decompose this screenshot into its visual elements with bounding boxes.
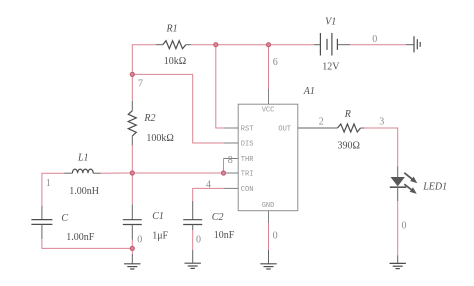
- wire TRI net horizontal: [132, 172, 223, 174]
- svg-text:1: 1: [46, 178, 51, 189]
- capacitor C1: [123, 205, 142, 240]
- node junction top RST: [214, 43, 218, 47]
- resistor R1: [156, 41, 191, 49]
- wire THR tie: [223, 159, 225, 174]
- svg-text:1.00nH: 1.00nH: [69, 186, 99, 197]
- wire DIS net: [132, 74, 223, 143]
- node 8 junction THR: [222, 171, 226, 175]
- svg-text:VCC: VCC: [262, 106, 275, 114]
- ground below C1: [124, 254, 140, 269]
- svg-text:0: 0: [137, 235, 142, 246]
- svg-text:A1: A1: [303, 86, 315, 97]
- svg-text:2: 2: [319, 117, 324, 128]
- svg-text:0: 0: [273, 230, 278, 241]
- svg-text:R1: R1: [166, 24, 178, 35]
- wire battery to ground: [350, 44, 406, 46]
- svg-text:1.00nF: 1.00nF: [66, 232, 95, 243]
- resistor R: [338, 124, 365, 132]
- battery V1: [314, 33, 350, 56]
- svg-text:OUT: OUT: [278, 126, 291, 134]
- wire C1 top: [131, 173, 133, 205]
- svg-text:7: 7: [138, 79, 143, 90]
- wire RST net: [216, 45, 225, 128]
- wire OUT right to LED: [364, 128, 398, 166]
- wire L1 left: [42, 173, 65, 206]
- svg-text:LED1: LED1: [422, 182, 447, 193]
- svg-text:C: C: [61, 213, 68, 224]
- svg-text:0: 0: [196, 235, 201, 246]
- wire top rail left: [132, 45, 156, 101]
- resistor R2: [128, 101, 136, 145]
- ground top right (rotated): [406, 36, 420, 52]
- svg-text:390Ω: 390Ω: [338, 141, 360, 152]
- ground below C2: [185, 263, 201, 268]
- ground below LED: [390, 255, 406, 268]
- node junction top VCC: [267, 43, 271, 47]
- svg-text:100kΩ: 100kΩ: [146, 133, 173, 144]
- timer IC A1 (555): [224, 89, 298, 223]
- capacitor C2: [183, 201, 202, 263]
- wire top rail middle: [191, 44, 314, 46]
- wire C1 bottom: [131, 240, 133, 255]
- inductor L1: [64, 169, 100, 173]
- node 7 junction: [130, 72, 134, 76]
- wire R2 bottom: [131, 145, 133, 173]
- svg-text:C1: C1: [152, 211, 164, 222]
- svg-text:10kΩ: 10kΩ: [164, 56, 186, 67]
- wire C bottom to C1 bottom: [42, 239, 132, 248]
- wire OUT left: [298, 127, 338, 129]
- svg-text:TRI: TRI: [241, 171, 254, 179]
- wire chip gnd: [268, 223, 270, 250]
- svg-text:CON: CON: [241, 186, 254, 194]
- svg-text:12V: 12V: [322, 62, 340, 73]
- svg-text:DIS: DIS: [241, 141, 254, 149]
- svg-text:3: 3: [379, 117, 384, 128]
- wire VCC net: [268, 45, 270, 89]
- node 8 junction left: [130, 171, 134, 175]
- wire LED bottom: [397, 201, 399, 255]
- svg-text:THR: THR: [241, 156, 254, 164]
- wire L1 right: [100, 172, 132, 174]
- svg-text:1μF: 1μF: [152, 231, 168, 242]
- svg-text:4: 4: [206, 179, 211, 190]
- node 0 junction bottom: [130, 246, 134, 250]
- svg-text:L1: L1: [77, 153, 89, 164]
- LED1: [390, 166, 418, 201]
- svg-text:C2: C2: [212, 212, 224, 223]
- svg-text:V1: V1: [325, 17, 336, 28]
- svg-text:0: 0: [372, 34, 377, 45]
- wire C2 bottom: [192, 230, 194, 250]
- svg-text:RST: RST: [241, 126, 254, 134]
- svg-text:8: 8: [228, 155, 233, 166]
- svg-text:0: 0: [402, 221, 407, 232]
- svg-text:GND: GND: [262, 202, 275, 210]
- svg-text:R2: R2: [143, 113, 155, 124]
- wire CON net: [193, 188, 224, 201]
- svg-text:10nF: 10nF: [214, 230, 235, 241]
- capacitor C: [31, 206, 52, 239]
- svg-text:6: 6: [273, 57, 278, 68]
- ground below chip: [260, 250, 276, 269]
- svg-text:R: R: [344, 109, 351, 120]
